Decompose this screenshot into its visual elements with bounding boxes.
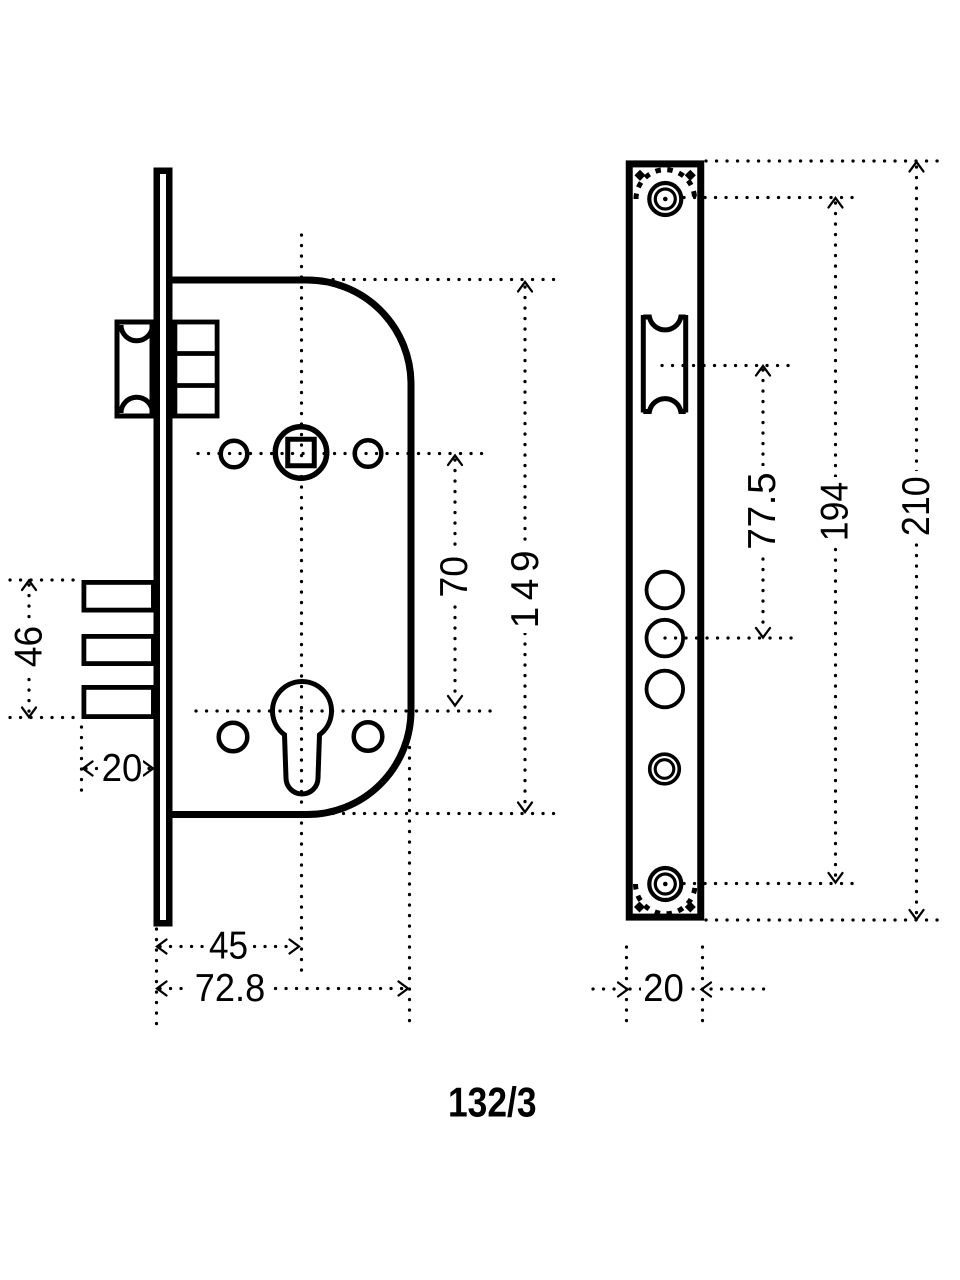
lock body outline bbox=[173, 280, 412, 815]
svg-text:20: 20 bbox=[102, 747, 143, 790]
dimension 20 (plate width) bbox=[593, 983, 770, 997]
svg-text:72.8: 72.8 bbox=[195, 967, 265, 1010]
bottom screw hole bbox=[649, 868, 681, 900]
ring hole (front view) bbox=[650, 754, 680, 784]
handle fixing holes (side view) bbox=[221, 441, 248, 468]
svg-text:45: 45 bbox=[209, 924, 248, 967]
extension line bottom screw centre bbox=[684, 882, 858, 885]
extension line plate top bbox=[706, 159, 940, 162]
dimension 194 bbox=[829, 198, 843, 883]
dimension 210 bbox=[910, 162, 924, 920]
extension line middle hole centre bbox=[665, 636, 795, 639]
latch tail sections bbox=[175, 322, 218, 416]
faceplate (side view) bbox=[157, 171, 170, 924]
dimension 149 bbox=[518, 282, 532, 812]
bottom corner marks bbox=[634, 901, 645, 912]
extension line deadbolt 20 bbox=[80, 727, 83, 795]
follower (square spindle hub) bbox=[275, 427, 326, 478]
extension line faceplate bottom bbox=[155, 929, 158, 1029]
extension line body bottom bbox=[312, 812, 562, 815]
dimension 72.8 bbox=[157, 982, 408, 996]
extension line latch centre (front) bbox=[662, 364, 795, 367]
extension line top screw centre bbox=[684, 196, 858, 199]
extension lines plate width 20 bbox=[625, 947, 628, 1030]
latch cutout (front view) bbox=[643, 315, 685, 413]
euro cylinder hole bbox=[273, 682, 332, 794]
extension line plate bottom bbox=[706, 918, 940, 921]
svg-text:20: 20 bbox=[643, 967, 684, 1010]
dimension 20 (deadbolt) bbox=[83, 762, 153, 776]
top screw hole bbox=[649, 183, 681, 215]
extension line body top bbox=[312, 278, 562, 281]
extension line body right bbox=[408, 716, 411, 1029]
top corner marks bbox=[634, 170, 645, 181]
svg-text:132/3: 132/3 bbox=[448, 1079, 537, 1126]
centre line (side view) bbox=[300, 235, 303, 976]
extension line cylinder centre bbox=[196, 709, 491, 712]
svg-text:46: 46 bbox=[8, 626, 51, 667]
extension lines deadbolt 46 bbox=[10, 578, 79, 581]
faceplate (front view) bbox=[629, 164, 701, 917]
dimension 46 bbox=[22, 581, 36, 718]
svg-text:77.5: 77.5 bbox=[741, 472, 784, 550]
svg-text:194: 194 bbox=[814, 482, 857, 541]
bottom screw countersink dashed arc bbox=[636, 884, 696, 914]
dimension 45 bbox=[157, 940, 299, 954]
deadbolt (three bars, side view) bbox=[84, 582, 153, 716]
three adjustment holes (front view) bbox=[647, 572, 684, 609]
svg-text:149: 149 bbox=[504, 550, 547, 628]
dimension 77.5 bbox=[756, 366, 770, 638]
top screw countersink dashed arc bbox=[636, 170, 695, 199]
latch bolt (side view) bbox=[117, 322, 153, 416]
cylinder fixing holes (side view) bbox=[219, 723, 248, 752]
dimension 70 bbox=[448, 456, 462, 706]
svg-text:70: 70 bbox=[433, 556, 476, 598]
extension line follower centre bbox=[198, 452, 491, 455]
svg-text:210: 210 bbox=[895, 476, 938, 536]
